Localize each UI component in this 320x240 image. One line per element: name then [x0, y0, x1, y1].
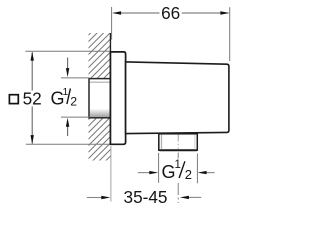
- svg-text:1: 1: [63, 87, 69, 98]
- svg-text:35-45: 35-45: [124, 187, 168, 207]
- svg-text:1: 1: [175, 159, 181, 171]
- svg-text:66: 66: [161, 3, 180, 23]
- svg-text:2: 2: [70, 94, 77, 108]
- svg-text:52: 52: [23, 89, 42, 109]
- svg-text:G: G: [162, 162, 176, 182]
- svg-text:2: 2: [185, 167, 192, 182]
